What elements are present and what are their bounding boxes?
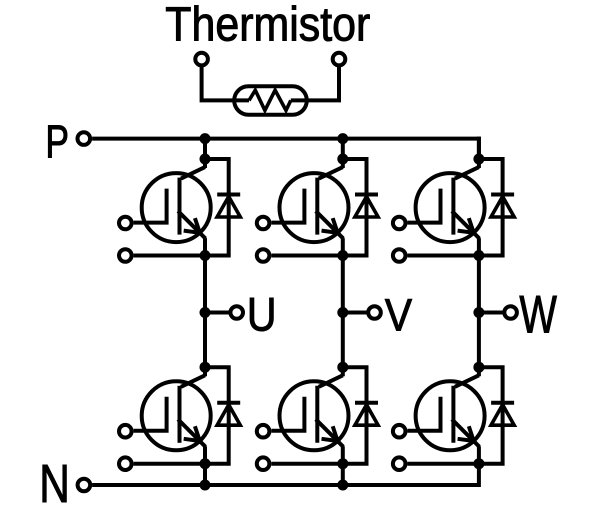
wire: thermistor left lead [202,65,249,100]
node: leg 1 upper branch [200,154,211,165]
terminal P [78,132,91,145]
wire: aux emitter lead E5 [408,254,479,258]
svg-text:N: N [39,454,70,511]
junction: leg 1 lower emitter node [200,458,211,469]
wire: leg 2 midsection [341,256,345,377]
wire: Q3 emitter [341,238,345,255]
svg-text:Thermistor: Thermistor [165,0,370,51]
aux emitter terminal E6 [393,457,406,470]
junction: leg 1 upper emitter node [200,250,211,261]
IGBT Q4 [271,375,348,450]
IGBT Q3 [271,167,348,242]
wire: aux emitter lead E4 [271,462,342,466]
aux emitter terminal E5 [393,249,406,262]
thermistor terminal left [195,53,208,66]
diode D2 [205,367,240,464]
wire: leg 1 midsection [203,256,207,377]
junction: leg 2 upper emitter node [337,250,348,261]
terminal U [230,306,243,319]
junction: leg 1 on N rail [200,480,211,491]
IGBT Q1 [134,167,211,242]
node: leg 2 lower branch [337,362,348,373]
wire: leg 2 collector drop [341,137,345,168]
gate terminal G5 [393,217,406,230]
diode D3 [343,159,378,256]
junction: leg 2 on N rail [337,480,348,491]
junction: leg 2 lower emitter node [337,458,348,469]
wire: Q2 emitter to N rail [203,446,207,485]
junction: leg 1 on P rail [200,133,211,144]
svg-text:V: V [385,290,412,340]
wire: V tap [343,311,368,315]
terminal N [78,479,91,492]
thermistor terminal right [333,53,346,66]
node U [200,307,211,318]
gate terminal G4 [257,425,270,438]
wire: aux emitter lead E3 [271,254,342,258]
terminal W [504,306,517,319]
IGBT Q5 [408,167,485,242]
IGBT Q6 [408,375,485,450]
wire: aux emitter lead E6 [408,462,479,466]
junction: leg 3 upper emitter node [473,250,484,261]
aux emitter terminal E2 [119,457,132,470]
node: leg 2 upper branch [337,154,348,165]
node: leg 1 lower branch [200,362,211,373]
thermistor RT1 body [234,86,307,114]
wire: Q4 emitter to N rail [341,446,345,485]
node: leg 3 upper branch [473,154,484,165]
wire: aux emitter lead E1 [134,254,205,258]
wire: leg 3 collector drop [477,137,481,168]
terminal V [368,306,381,319]
node V [337,307,348,318]
wire: N rail [92,483,479,487]
diode D6 [479,367,514,464]
junction: leg 3 lower emitter node [473,458,484,469]
gate terminal G1 [119,217,132,230]
wire: leg 3 midsection [477,256,481,377]
svg-text:U: U [247,289,277,341]
wire: Q6 emitter to N rail [477,446,481,487]
aux emitter terminal E1 [119,249,132,262]
gate terminal G3 [257,217,270,230]
diode D1 [205,159,240,256]
gate terminal G6 [393,425,406,438]
node: leg 3 lower branch [473,362,484,373]
aux emitter terminal E4 [257,457,270,470]
wire: leg 1 collector drop [203,137,207,168]
gate terminal G2 [119,425,132,438]
IGBT Q2 [134,375,211,450]
wire: U tap [205,311,230,315]
wire: W tap [479,311,504,315]
wire: P rail [92,139,479,159]
diode D5 [479,159,514,256]
wire: aux emitter lead E2 [134,462,205,466]
node W [473,307,484,318]
wire: Q5 emitter [477,238,481,255]
diode D4 [343,367,378,464]
junction: leg 2 on P rail [337,133,348,144]
wire: Q1 emitter [203,238,207,255]
wire: thermistor right lead [291,65,339,100]
aux emitter terminal E3 [257,249,270,262]
svg-text:P: P [45,116,69,168]
svg-text:W: W [519,284,557,344]
